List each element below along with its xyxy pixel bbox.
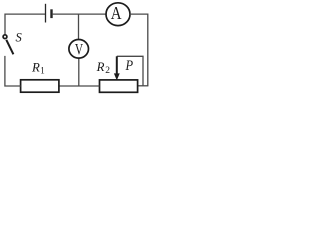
wire voltmeter lower lead [78,58,80,86]
wire bottom-left segment [5,56,21,86]
svg-text:R: R [96,60,105,74]
wire voltmeter upper lead [78,14,80,39]
svg-text:S: S [16,30,23,44]
switch S lever [6,40,13,55]
wire bottom-right to R2 right terminal [138,85,149,87]
wire ammeter to top-right corner and right side down [130,14,148,86]
wire R2 left to R1 right [59,85,100,87]
svg-text:2: 2 [105,66,110,76]
ammeter U1 circle [106,3,130,26]
wire battery to ammeter [53,13,107,15]
svg-text:P: P [125,58,133,74]
wire wiper return (up and over to right) [117,56,143,85]
battery B1 long plate [45,4,47,23]
svg-text:R: R [31,60,40,74]
svg-text:V: V [75,41,84,58]
svg-text:1: 1 [40,65,45,75]
switch S contact circle [3,35,7,39]
rheostat wiper arrow P [116,56,118,75]
voltmeter U2 circle [69,40,89,59]
svg-text:A: A [111,3,122,23]
resistor R1 box [21,80,59,92]
resistor R2 box [100,80,138,92]
battery B1 short thick plate [50,9,52,18]
wire top-left segment [5,14,45,35]
